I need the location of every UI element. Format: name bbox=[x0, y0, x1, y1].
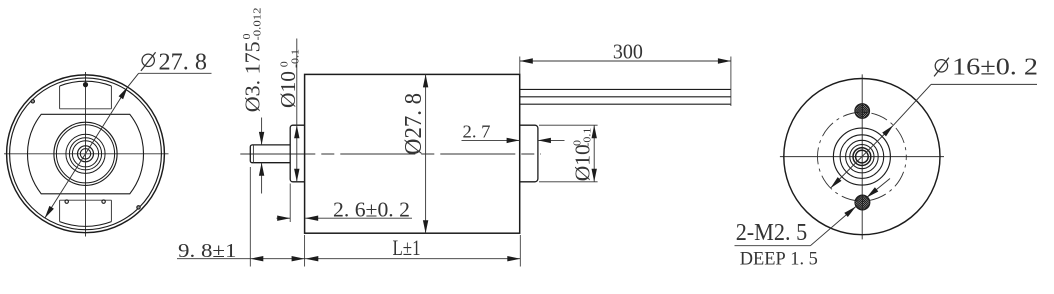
bottom magnet segment bbox=[60, 200, 112, 226]
dimension text diameter 16 +-0.2 bbox=[934, 55, 1038, 81]
shared dimension line 9.8+-1 and L+-1 bbox=[177, 167, 520, 267]
top magnet segment bbox=[60, 81, 112, 109]
right view vertical centerline bbox=[861, 74, 863, 239]
right view outer circle bbox=[784, 79, 940, 235]
svg-text:9. 8±1: 9. 8±1 bbox=[178, 240, 237, 262]
dimension text 2.7 bbox=[463, 122, 491, 142]
svg-text:300: 300 bbox=[613, 40, 643, 64]
dimension text L+-1 bbox=[393, 235, 421, 260]
dimension text diameter 3.175 with tolerance (rotated) bbox=[241, 8, 265, 113]
small dot at 315 deg bbox=[137, 206, 140, 209]
lead wires (3 lines) bbox=[520, 89, 731, 104]
right view concentric circles bbox=[833, 128, 890, 185]
svg-text:27. 8: 27. 8 bbox=[159, 49, 208, 75]
svg-text:2. 7: 2. 7 bbox=[463, 122, 491, 142]
label text DEEP 1.5 bbox=[740, 250, 818, 270]
svg-text:Ø10: Ø10 bbox=[276, 71, 300, 108]
middle view centerline (dash-dot) bbox=[240, 153, 541, 155]
screw hole top (M2.5) with crosshatch bbox=[839, 96, 886, 125]
motor body rectangle bbox=[305, 74, 520, 233]
small dot top center (pole mark) bbox=[84, 83, 88, 87]
svg-text:Ø3. 175: Ø3. 175 bbox=[241, 41, 265, 112]
center bearing / shaft concentric circles bbox=[54, 122, 117, 185]
dimension diameter 27.8 (left view) leader line bbox=[45, 73, 212, 218]
label text 2-M2.5 bbox=[736, 220, 808, 246]
dimension shaft diameter 3.175 arrows bbox=[259, 118, 264, 194]
output shaft bbox=[250, 145, 290, 163]
flux ring band with flats bbox=[27, 114, 143, 194]
dimension text 300 bbox=[613, 40, 643, 64]
bottom magnet rivet dots bbox=[65, 200, 105, 203]
svg-text:-0.1: -0.1 bbox=[290, 49, 302, 68]
svg-text:Ø27. 8: Ø27. 8 bbox=[401, 93, 427, 155]
left view horizontal centerline bbox=[4, 153, 169, 155]
dimension text diameter 27.8 (left view) bbox=[141, 49, 207, 75]
dimension 2.6 +-0.2 front boss length bbox=[277, 184, 413, 223]
dimension text 2.6 +-0.2 bbox=[333, 198, 410, 222]
svg-text:-0.1: -0.1 bbox=[582, 128, 594, 147]
dimension text diameter 27.8 (middle, rotated) bbox=[401, 93, 427, 155]
left view outer circle (motor housing OD) bbox=[7, 75, 165, 233]
rear boss bbox=[520, 125, 538, 182]
svg-text:2. 6±0. 2: 2. 6±0. 2 bbox=[333, 198, 410, 222]
left view vertical centerline bbox=[85, 72, 87, 237]
dimension text front diameter 10 with tolerance (rotated) bbox=[276, 49, 302, 108]
bolt circle diameter 16 (dash-dot) bbox=[818, 112, 907, 201]
svg-text:Ø10: Ø10 bbox=[571, 144, 595, 181]
svg-text:-0.012: -0.012 bbox=[251, 8, 263, 41]
dimension rear boss diameter 10 ext lines and arrows bbox=[539, 125, 598, 182]
right view horizontal centerline bbox=[780, 156, 944, 158]
dimension 300 lead length bbox=[520, 57, 731, 107]
dimension 2.7 rear boss length bbox=[462, 138, 565, 143]
svg-text:2-M2. 5: 2-M2. 5 bbox=[736, 220, 808, 246]
front bearing boss bbox=[290, 125, 304, 182]
dimension text 9.8+-1 bbox=[178, 240, 237, 262]
dimension front boss diameter 10 arrows bbox=[294, 39, 299, 182]
dimension diameter 16 leader bbox=[830, 84, 1037, 188]
label 2-M2.5 leader bbox=[735, 179, 891, 246]
small dot at 135 deg bbox=[31, 100, 34, 103]
left view inner circle (housing wall) bbox=[10, 78, 162, 230]
dimension text rear diameter 10 with tolerance (rotated) bbox=[571, 128, 595, 182]
svg-text:16±0. 2: 16±0. 2 bbox=[952, 55, 1038, 81]
svg-text:DEEP 1. 5: DEEP 1. 5 bbox=[740, 250, 818, 270]
shaft end chamfer line bbox=[252, 145, 254, 163]
dimension body diameter 27.8 arrows (middle view) bbox=[423, 74, 428, 233]
svg-text:L±1: L±1 bbox=[393, 235, 421, 260]
screw hole bottom (M2.5) with crosshatch bbox=[839, 188, 886, 218]
